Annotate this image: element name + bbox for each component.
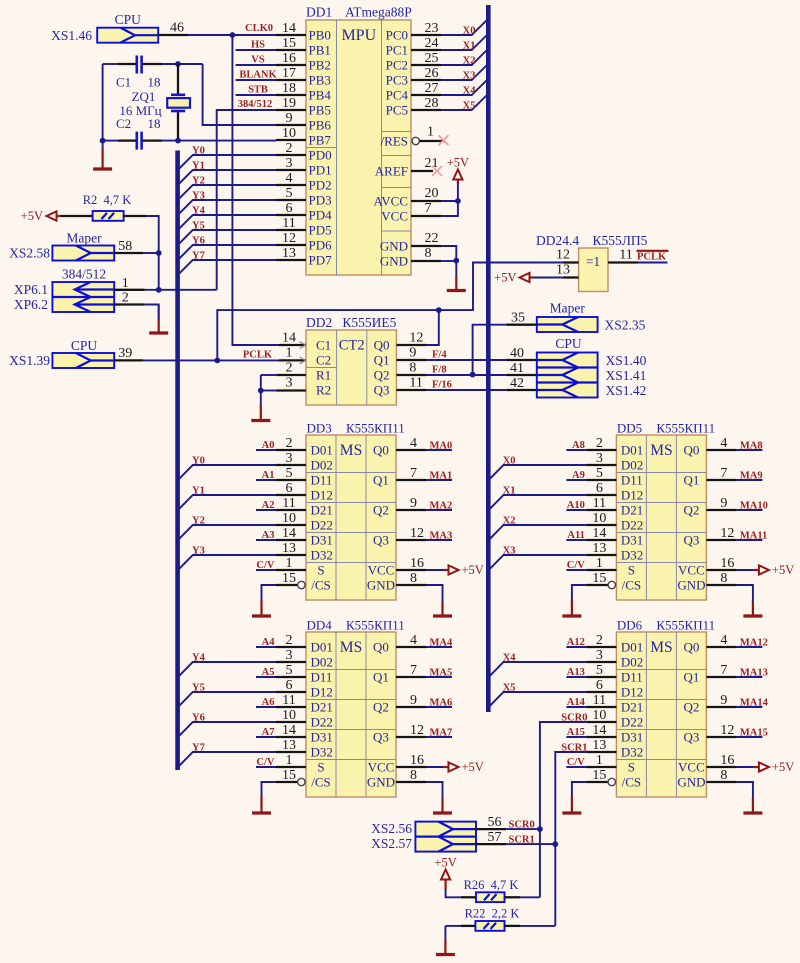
svg-text:C/V: C/V <box>567 757 586 768</box>
DD1 pin 3 stub (PD1) <box>276 156 306 171</box>
svg-text:PD7: PD7 <box>309 253 333 268</box>
junction C2 ground node <box>100 138 106 144</box>
svg-text:D02: D02 <box>621 458 643 473</box>
wire DD4 Q0 output MA4 <box>396 633 453 649</box>
+5V supply at DD24.4 pin 13 <box>494 271 529 285</box>
wire Y7 from DD1 PD7 to bus <box>179 251 276 274</box>
svg-text:XS1.41: XS1.41 <box>606 368 647 383</box>
DD5 pin 15 stub <box>586 571 615 589</box>
wire A2 input to DD3 D21 <box>256 500 276 511</box>
svg-text:3: 3 <box>286 376 293 391</box>
wire Y2 from bus to DD3 D22 <box>179 516 276 539</box>
clock input mark at DD2 C2 <box>300 357 306 364</box>
junction DD1 ground node <box>453 258 459 264</box>
svg-text:1: 1 <box>596 556 603 571</box>
DD24.4 output pin 11 /PCLK <box>608 248 669 263</box>
IC DD6 reference label <box>617 618 715 633</box>
DD6 pin 1 stub <box>586 753 616 768</box>
svg-text:14: 14 <box>282 526 296 541</box>
svg-text:К555КП11: К555КП11 <box>656 421 715 436</box>
svg-text:PD1: PD1 <box>309 163 332 178</box>
svg-text:Q1: Q1 <box>683 473 699 488</box>
svg-text:11: 11 <box>593 496 606 511</box>
svg-text:PB7: PB7 <box>309 133 332 148</box>
IC DD5 K555KP11 multiplexer body <box>616 435 706 600</box>
svg-text:S: S <box>628 563 635 578</box>
svg-text:PD4: PD4 <box>309 208 333 223</box>
DD3 pin 1 stub <box>276 556 306 571</box>
svg-text:13: 13 <box>282 738 296 753</box>
svg-text:X5: X5 <box>463 101 476 112</box>
svg-text:CPU: CPU <box>555 336 582 351</box>
junction crystal top node <box>175 61 181 67</box>
svg-text:21: 21 <box>425 156 439 171</box>
wire C/V input to DD6 S <box>566 757 586 768</box>
DD6 pin 10 stub <box>586 708 616 723</box>
svg-text:25: 25 <box>425 51 439 66</box>
svg-text:S: S <box>628 760 635 775</box>
svg-text:D01: D01 <box>311 640 333 655</box>
svg-text:Y6: Y6 <box>192 236 205 247</box>
wire HS net stub to DD1 <box>236 40 276 51</box>
svg-text:D21: D21 <box>311 700 333 715</box>
ground at DD3 GND <box>433 585 452 616</box>
svg-text:Q1: Q1 <box>683 670 699 685</box>
wire A14 input to DD6 D21 <box>566 697 586 708</box>
svg-text:Q1: Q1 <box>373 473 389 488</box>
wire DD5 /CS to ground <box>572 585 587 586</box>
wire A10 input to DD5 D21 <box>566 500 586 511</box>
wire X5 from DD1 PC5 to bus <box>441 96 486 112</box>
+5V supply at DD5 VCC <box>759 563 794 577</box>
svg-text:DD2: DD2 <box>306 315 332 330</box>
svg-text:1: 1 <box>427 125 434 140</box>
DD5 pin 13 stub <box>586 541 616 556</box>
wire DD4 VCC pin 16 to +5V <box>396 753 449 768</box>
svg-text:10: 10 <box>282 511 296 526</box>
svg-text:К555ИЕ5: К555ИЕ5 <box>342 315 396 330</box>
svg-text:13: 13 <box>556 263 570 278</box>
svg-text:7: 7 <box>410 663 417 678</box>
wire DD5 Q3 output MA11 <box>706 526 767 542</box>
svg-text:5: 5 <box>596 663 603 678</box>
svg-text:MA1: MA1 <box>430 471 453 482</box>
svg-text:4: 4 <box>720 633 727 648</box>
svg-text:VCC: VCC <box>368 760 395 775</box>
XS1.40-42 pin numbers <box>510 346 524 391</box>
svg-text:A1: A1 <box>262 470 275 481</box>
wire DD3 Q0 output MA0 <box>396 436 452 452</box>
IC DD3 K555KP11 multiplexer body <box>306 435 396 600</box>
svg-text:6: 6 <box>596 678 603 693</box>
DD6 pin 3 stub <box>586 648 616 663</box>
svg-text:Y6: Y6 <box>192 713 205 724</box>
svg-text:2: 2 <box>122 291 129 306</box>
svg-text:28: 28 <box>425 96 439 111</box>
svg-text:XS2.35: XS2.35 <box>605 317 646 332</box>
svg-text:D01: D01 <box>621 640 643 655</box>
svg-text:DD6: DD6 <box>617 618 643 633</box>
svg-text:X4: X4 <box>463 86 477 97</box>
wire C/V input to DD4 S <box>256 757 276 768</box>
svg-text:Q3: Q3 <box>374 383 390 398</box>
svg-text:9: 9 <box>286 111 293 126</box>
ground at crystal capacitors <box>93 141 112 169</box>
svg-text:Q2: Q2 <box>373 503 389 518</box>
wire DD6 Q0 output MA12 <box>706 633 768 649</box>
ground at DD3 /CS <box>252 585 271 616</box>
svg-text:VS: VS <box>251 55 265 66</box>
svg-text:MA0: MA0 <box>430 441 453 452</box>
wire DD1 AVCC pin 20 to +5V <box>411 186 458 201</box>
svg-text:10: 10 <box>282 126 296 141</box>
wire STB net stub to DD1 <box>236 85 276 96</box>
svg-text:C2: C2 <box>116 116 131 131</box>
ground at DD6 /CS <box>562 782 581 813</box>
wire SCR0 from XS2.56 to DD6 D22 <box>540 713 588 898</box>
ground at DD4 /CS <box>252 782 271 813</box>
svg-text:19: 19 <box>282 96 296 111</box>
svg-text:MS: MS <box>340 442 362 459</box>
svg-text:К555КП11: К555КП11 <box>346 618 405 633</box>
svg-text:F/8: F/8 <box>432 365 447 376</box>
svg-text:9: 9 <box>410 496 417 511</box>
svg-text:F/16: F/16 <box>432 380 452 391</box>
svg-text:Q1: Q1 <box>374 353 390 368</box>
svg-text:2: 2 <box>286 141 293 156</box>
wire DD3 GND pin 8 to ground <box>396 571 443 586</box>
svg-text:/CS: /CS <box>311 775 331 790</box>
svg-text:26: 26 <box>425 66 439 81</box>
svg-text:Y0: Y0 <box>192 146 205 157</box>
svg-text:MA9: MA9 <box>740 471 763 482</box>
svg-text:+5V: +5V <box>772 760 794 774</box>
svg-text:STB: STB <box>248 85 268 96</box>
svg-text:D21: D21 <box>621 503 643 518</box>
wire C/V input to DD3 S <box>256 560 276 571</box>
DD4 pin 3 stub <box>276 648 306 663</box>
wire +5V to DD24.4 pin 13 <box>530 263 579 278</box>
svg-text:MA10: MA10 <box>740 501 768 512</box>
connector XS2.58 labels <box>9 230 102 260</box>
DD3 pin 11 stub <box>276 496 306 511</box>
svg-text:К555КП11: К555КП11 <box>656 618 715 633</box>
wire DD3 /CS to ground <box>262 585 277 586</box>
svg-text:X3: X3 <box>463 71 476 82</box>
svg-text:1: 1 <box>122 276 129 291</box>
ground at DD5 /CS <box>562 585 581 616</box>
connector XS1.39 labels <box>9 338 97 368</box>
svg-text:Q2: Q2 <box>683 503 699 518</box>
wire Y5 from DD1 PD5 to bus <box>179 221 276 244</box>
DD6 pin 6 stub <box>586 678 616 693</box>
svg-text:9: 9 <box>720 496 727 511</box>
ground at DD4 GND <box>433 782 452 813</box>
svg-text:+5V: +5V <box>462 563 484 577</box>
svg-text:8: 8 <box>410 571 417 586</box>
svg-text:2: 2 <box>286 633 293 648</box>
wire XS2.56 pin 56 to SCR0 <box>476 815 540 830</box>
svg-text:CPU: CPU <box>115 12 142 27</box>
DD4 pin 1 stub <box>276 753 306 768</box>
svg-text:XP6.1: XP6.1 <box>14 282 48 297</box>
svg-text:К555ЛП5: К555ЛП5 <box>593 233 648 248</box>
svg-text:35: 35 <box>511 311 525 326</box>
svg-text:8: 8 <box>720 571 727 586</box>
svg-text:23: 23 <box>425 21 439 36</box>
connector XS1.40/41/42 (CPU) <box>537 353 598 398</box>
wire A0 input to DD3 D01 <box>256 440 276 451</box>
svg-text:/CS: /CS <box>622 775 642 790</box>
svg-text:C1: C1 <box>316 338 331 353</box>
svg-text:+5V: +5V <box>772 563 794 577</box>
DD1 pin 17 stub (PB3) <box>276 66 306 81</box>
svg-text:D02: D02 <box>621 655 643 670</box>
svg-text:XS1.40: XS1.40 <box>606 353 647 368</box>
svg-text:VCC: VCC <box>381 209 408 224</box>
svg-text:22: 22 <box>425 231 439 246</box>
svg-text:PB1: PB1 <box>309 43 331 58</box>
connector XS1.46 (CPU) <box>97 28 158 43</box>
svg-text:D31: D31 <box>621 533 643 548</box>
svg-text:Q2: Q2 <box>374 368 390 383</box>
svg-text:Q0: Q0 <box>683 640 699 655</box>
svg-text:Y5: Y5 <box>192 221 205 232</box>
wire DD2 R1 pin 2 <box>261 361 306 391</box>
svg-text:R1: R1 <box>316 368 331 383</box>
junction F/8 to Maper node <box>470 372 476 378</box>
svg-text:C1: C1 <box>116 75 131 90</box>
svg-text:Q0: Q0 <box>373 640 389 655</box>
svg-text:3: 3 <box>286 451 293 466</box>
svg-text:13: 13 <box>282 246 296 261</box>
connector XS2.35 labels <box>550 301 646 333</box>
wire Y1 from bus to DD3 D12 <box>179 486 276 509</box>
wire F/8 branch up to XS2.35 <box>473 325 507 375</box>
DD5 pin 1 stub <box>586 556 616 571</box>
DD4 pin 13 stub <box>276 738 306 753</box>
svg-text:11: 11 <box>619 248 632 263</box>
svg-text:MPU: MPU <box>341 27 376 44</box>
svg-text:8: 8 <box>410 768 417 783</box>
wire R22 right lead to SCR1 <box>505 925 556 927</box>
wire Y0 from DD1 PD0 to bus <box>179 146 276 169</box>
IC DD4 reference label <box>307 618 405 633</box>
svg-text:X0: X0 <box>503 456 516 467</box>
svg-text:MS: MS <box>340 639 362 656</box>
IC DD24.4 reference label <box>536 233 648 248</box>
svg-text:Y3: Y3 <box>192 191 205 202</box>
svg-text:Y1: Y1 <box>192 161 205 172</box>
DD1 pin 5 stub (PD3) <box>276 186 306 201</box>
svg-text:GND: GND <box>380 254 408 269</box>
wire C2 bottom rail to DD1 PB7 <box>103 140 276 142</box>
wire A8 input to DD5 D01 <box>566 440 586 451</box>
svg-text:4: 4 <box>720 436 727 451</box>
DD1 pin 23 stub (PC0) <box>411 21 441 36</box>
svg-text:MA8: MA8 <box>740 441 763 452</box>
XS2.35 pin 35 stub <box>506 311 536 326</box>
svg-text:PD2: PD2 <box>309 178 332 193</box>
svg-text:Y2: Y2 <box>192 516 205 527</box>
wire A5 input to DD4 D11 <box>256 667 276 678</box>
DD1 pin 4 stub (PD2) <box>276 171 306 186</box>
svg-text:R22 2,2 K: R22 2,2 K <box>465 906 520 920</box>
svg-text:PD6: PD6 <box>309 238 333 253</box>
wire Y4 from DD1 PD4 to bus <box>179 206 276 229</box>
+5V supply at DD4 VCC <box>449 760 484 774</box>
DD5 pin 3 stub <box>586 451 616 466</box>
svg-text:ATmega88P: ATmega88P <box>345 5 412 20</box>
svg-text:PB5: PB5 <box>309 103 331 118</box>
svg-text:+5V: +5V <box>494 271 516 285</box>
svg-text:18: 18 <box>148 116 161 131</box>
DD1 pin 26 stub (PC3) <box>411 66 441 81</box>
svg-text:XS1.46: XS1.46 <box>51 28 92 43</box>
svg-text:1: 1 <box>286 346 293 361</box>
DD4 pin 15 stub <box>276 768 305 786</box>
svg-text:PC1: PC1 <box>386 43 408 58</box>
wire DD1 VCC pin 7 to +5V <box>411 182 458 216</box>
svg-text:Q3: Q3 <box>683 533 699 548</box>
svg-text:16: 16 <box>410 556 424 571</box>
svg-text:DD4: DD4 <box>307 618 333 633</box>
svg-text:Q3: Q3 <box>373 533 389 548</box>
DD4 pin 6 stub <box>276 678 306 693</box>
svg-text:X1: X1 <box>463 41 476 52</box>
DD5 pin 2 stub <box>586 436 616 451</box>
capacitor C1 <box>116 56 161 90</box>
svg-text:A2: A2 <box>262 500 275 511</box>
svg-text:X2: X2 <box>503 516 516 527</box>
DD6 pin 5 stub <box>586 663 616 678</box>
wire DD3 Q3 output MA3 <box>396 526 452 542</box>
+5V supply at DD6 VCC <box>759 760 794 774</box>
svg-text:A9: A9 <box>572 470 585 481</box>
svg-text:A15: A15 <box>567 727 585 738</box>
svg-text:ZQ1: ZQ1 <box>132 89 156 104</box>
connector XS1.39 (CPU) <box>52 353 114 368</box>
wire DD3 Q1 output MA1 <box>396 466 452 482</box>
wire XP6.2 pin 2 to ground <box>114 291 159 320</box>
svg-text:3: 3 <box>596 451 603 466</box>
svg-text:GND: GND <box>677 775 705 790</box>
wire A9 input to DD5 D11 <box>566 470 586 481</box>
svg-text:D12: D12 <box>311 685 333 700</box>
svg-text:13: 13 <box>592 541 606 556</box>
svg-text:6: 6 <box>286 481 293 496</box>
wire DD6 VCC pin 16 to +5V <box>706 753 759 768</box>
svg-text:Q1: Q1 <box>373 670 389 685</box>
DD1 pin 25 stub (PC2) <box>411 51 441 66</box>
svg-text:18: 18 <box>282 81 296 96</box>
svg-text:8: 8 <box>409 361 416 376</box>
svg-text:MA7: MA7 <box>430 728 453 739</box>
svg-text:Y2: Y2 <box>192 176 205 187</box>
ground at DD2 reset <box>251 391 270 421</box>
svg-text:A8: A8 <box>572 440 585 451</box>
svg-text:X3: X3 <box>503 546 516 557</box>
wire DD5 Q0 output MA8 <box>706 436 762 452</box>
svg-text:39: 39 <box>118 346 132 361</box>
svg-text:D31: D31 <box>311 533 333 548</box>
svg-text:MA5: MA5 <box>430 668 453 679</box>
wire DD2 Q1 pin 9 / F/4 to XS1.40 <box>396 346 536 361</box>
svg-text:Y4: Y4 <box>192 653 206 664</box>
svg-text:4: 4 <box>410 633 417 648</box>
svg-text:PD5: PD5 <box>309 223 332 238</box>
svg-text:12: 12 <box>720 526 734 541</box>
svg-text:MA3: MA3 <box>430 531 453 542</box>
resistor R26 4.7K <box>446 878 519 902</box>
wire X3 from DD1 PC3 to bus <box>441 66 486 82</box>
svg-text:A4: A4 <box>262 637 276 648</box>
svg-text:17: 17 <box>282 66 296 81</box>
wire A15 input to DD6 D31 <box>566 727 586 738</box>
ground at DD6 GND <box>743 782 762 813</box>
svg-text:13: 13 <box>282 541 296 556</box>
svg-text:12: 12 <box>556 248 570 263</box>
svg-text:14: 14 <box>592 723 606 738</box>
svg-text:MA11: MA11 <box>740 531 767 542</box>
wire R2 to XS2.58 net <box>124 216 159 290</box>
wire DD4 Q2 output MA6 <box>396 693 452 709</box>
svg-text:/CS: /CS <box>311 578 331 593</box>
svg-text:D02: D02 <box>311 458 333 473</box>
svg-text:9: 9 <box>720 693 727 708</box>
DD1 pin 27 stub (PC4) <box>411 81 441 96</box>
DD1 pin 11 stub (PD5) <box>276 216 306 231</box>
wire X1 from DD1 PC1 to bus <box>441 36 486 52</box>
wire C/V input to DD5 S <box>566 560 586 571</box>
connector XS1.40-42 labels <box>555 336 646 398</box>
svg-text:A3: A3 <box>262 530 275 541</box>
clock input mark at DD2 C1 <box>300 342 306 349</box>
svg-text:9: 9 <box>410 693 417 708</box>
svg-text:14: 14 <box>282 723 296 738</box>
wire Y4 from bus to DD4 D02 <box>179 653 276 676</box>
DD1 pin 13 stub (PD7) <box>276 246 306 261</box>
svg-text:MA4: MA4 <box>430 638 453 649</box>
wire Y3 from bus to DD3 D32 <box>179 546 276 569</box>
svg-text:6: 6 <box>596 481 603 496</box>
wire A3 input to DD3 D31 <box>256 530 276 541</box>
DD4 pin 5 stub <box>276 663 306 678</box>
DD5 pin 5 stub <box>586 466 616 481</box>
svg-text:+5V: +5V <box>434 856 456 870</box>
svg-text:MA15: MA15 <box>740 728 768 739</box>
svg-text:D11: D11 <box>621 473 643 488</box>
DD1 pin 14 stub (PB0) <box>276 21 306 36</box>
svg-text:7: 7 <box>720 663 727 678</box>
wire CLK0 vertical down to DD2 C1 <box>232 35 279 345</box>
svg-text:16: 16 <box>720 556 734 571</box>
svg-text:24: 24 <box>425 36 439 51</box>
svg-text:7: 7 <box>720 466 727 481</box>
wire XTAL1 from top rail to DD1 PB6 <box>203 64 276 125</box>
bus Y0-Y7 (left vertical bus) <box>175 151 180 771</box>
svg-text:Q3: Q3 <box>373 730 389 745</box>
svg-text:PB0: PB0 <box>309 28 331 43</box>
svg-text:X4: X4 <box>503 653 517 664</box>
DD4 pin 2 stub <box>276 633 306 648</box>
svg-text:10: 10 <box>592 511 606 526</box>
svg-text:D32: D32 <box>621 548 643 563</box>
resistor R22 2.2K <box>445 906 519 931</box>
wire Y7 from bus to DD4 D32 <box>179 743 276 766</box>
svg-text:27: 27 <box>425 81 439 96</box>
svg-text:PCLK: PCLK <box>637 252 667 263</box>
